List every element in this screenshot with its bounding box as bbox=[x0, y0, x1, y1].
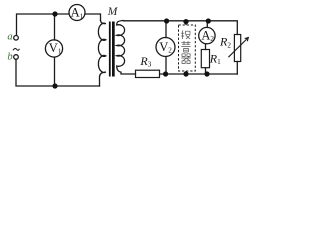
bottom rail left segment to R3 bbox=[160, 73, 238, 75]
alarm device glyph 报 (drawn strokes) bbox=[181, 31, 190, 40]
resistor R1 stub bottom bbox=[205, 68, 207, 74]
resistor R1 body bbox=[201, 50, 209, 68]
ammeter A1 bbox=[69, 5, 85, 21]
alarm box stub bottom bbox=[185, 64, 187, 75]
ammeter A2 stub top bbox=[206, 21, 208, 27]
wire top rail left (corner to A1) bbox=[17, 14, 70, 35]
junction dot bottom below V2 bbox=[163, 71, 168, 76]
rheostat R2 body bbox=[234, 35, 240, 62]
junction dot bottom below V1 bbox=[52, 83, 57, 88]
junction dot bottom below alarm bbox=[183, 71, 188, 76]
rheostat arrowhead bbox=[245, 38, 248, 41]
voltmeter V1 bbox=[45, 40, 62, 57]
voltmeter V1 stub bottom bbox=[54, 57, 56, 86]
voltmeter V2 stub bottom bbox=[165, 57, 167, 74]
alarm box stub top bbox=[185, 22, 187, 31]
junction dot top above V1 bbox=[52, 11, 57, 16]
resistor R3 body bbox=[136, 70, 160, 77]
voltmeter V2 bbox=[156, 38, 175, 57]
svg-text:a: a bbox=[7, 32, 12, 43]
dashed box around alarm bbox=[179, 25, 196, 71]
alarm device glyph 器 (drawn strokes) bbox=[181, 54, 190, 64]
voltmeter V1 stub top bbox=[54, 14, 56, 40]
terminal a bbox=[14, 36, 19, 41]
junction dot bottom below R1 bbox=[204, 71, 209, 76]
transformer secondary coil bbox=[117, 21, 136, 75]
junction dot top above alarm bbox=[183, 19, 188, 24]
wire b down to bottom rail bbox=[16, 59, 100, 86]
transformer core bar 1 bbox=[109, 22, 111, 77]
junction dot top above A2 bbox=[206, 18, 211, 23]
ammeter A2 bbox=[199, 27, 215, 43]
svg-text:b: b bbox=[7, 52, 12, 63]
alarm device glyph 警 (drawn strokes) bbox=[181, 41, 190, 52]
transformer primary coil bbox=[98, 21, 105, 87]
voltmeter V2 stub top bbox=[165, 21, 167, 38]
right circuit top rail and right edge down to rheostat bbox=[124, 21, 238, 35]
wire A1 to transformer corner bbox=[85, 14, 101, 21]
terminal b bbox=[14, 55, 19, 60]
transformer core bar 2 bbox=[112, 22, 115, 77]
AC tilde bbox=[13, 48, 19, 50]
rheostat R2 stub bottom bbox=[236, 62, 238, 75]
junction dot top above V2 bbox=[164, 18, 169, 23]
ammeter A2 to R1 stub bbox=[205, 44, 207, 50]
rheostat arrow bbox=[229, 38, 248, 57]
svg-text:M: M bbox=[107, 6, 119, 18]
